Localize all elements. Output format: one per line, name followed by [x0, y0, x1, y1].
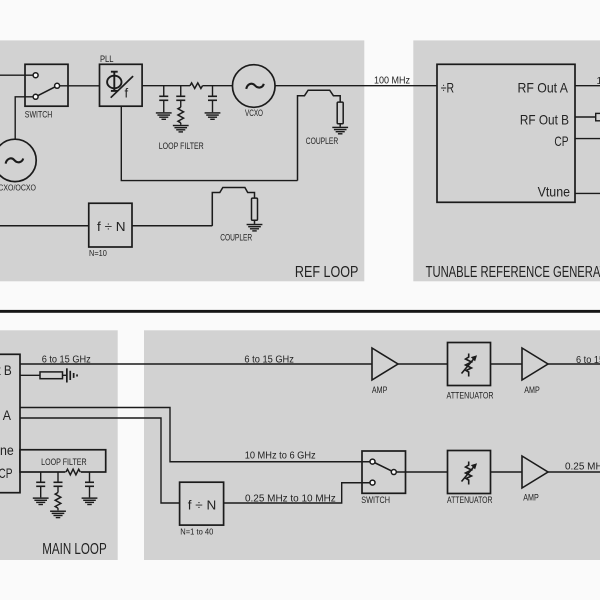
- svg-text:N=1 to 40: N=1 to 40: [180, 527, 213, 537]
- svg-text:AMP: AMP: [372, 385, 388, 395]
- svg-text:REF LOOP: REF LOOP: [295, 264, 359, 281]
- svg-text:÷R: ÷R: [441, 80, 454, 96]
- svg-text:TCXO/OCXO: TCXO/OCXO: [0, 183, 36, 192]
- svg-text:6 to 15 GHz: 6 to 15 GHz: [244, 354, 294, 365]
- svg-text:6 to 15 GHz: 6 to 15 GHz: [576, 355, 600, 366]
- svg-text:SWITCH: SWITCH: [25, 110, 53, 120]
- svg-text:AMP: AMP: [523, 493, 539, 503]
- svg-text:100 MHz: 100 MHz: [374, 75, 410, 86]
- svg-text:COUPLER: COUPLER: [306, 136, 339, 146]
- svg-text:LOOP FILTER: LOOP FILTER: [159, 141, 204, 151]
- svg-text:CP: CP: [0, 465, 13, 481]
- svg-text:RF Out B: RF Out B: [520, 111, 569, 127]
- svg-text:Vtune: Vtune: [538, 184, 571, 200]
- svg-text:1: 1: [597, 76, 600, 87]
- svg-text:LOOP FILTER: LOOP FILTER: [41, 457, 87, 467]
- svg-text:10 MHz to 6 GHz: 10 MHz to 6 GHz: [245, 450, 316, 461]
- svg-text:f ÷ N: f ÷ N: [188, 498, 217, 513]
- svg-text:RF Out A: RF Out A: [0, 407, 12, 423]
- svg-text:MAIN LOOP: MAIN LOOP: [42, 541, 107, 558]
- svg-text:COUPLER: COUPLER: [220, 232, 252, 242]
- svg-text:f ÷ N: f ÷ N: [97, 219, 126, 234]
- svg-text:0.25 MHz to 10 MHz: 0.25 MHz to 10 MHz: [565, 462, 600, 473]
- svg-text:N=10: N=10: [89, 248, 107, 258]
- svg-text:RF Out B: RF Out B: [0, 362, 12, 378]
- svg-text:0.25 MHz to 10 MHz: 0.25 MHz to 10 MHz: [245, 494, 336, 505]
- svg-text:TUNABLE REFERENCE GENERATOR: TUNABLE REFERENCE GENERATOR: [426, 264, 600, 281]
- svg-text:f: f: [125, 85, 129, 100]
- svg-text:6 to 15 GHz: 6 to 15 GHz: [42, 354, 91, 365]
- svg-text:ATTENUATOR: ATTENUATOR: [447, 391, 494, 401]
- svg-text:PLL: PLL: [100, 54, 114, 64]
- svg-text:Vtune: Vtune: [0, 442, 14, 458]
- svg-text:VCXO: VCXO: [245, 108, 263, 118]
- svg-text:CP: CP: [554, 133, 568, 149]
- svg-text:RF Out A: RF Out A: [518, 80, 569, 96]
- svg-text:SWITCH: SWITCH: [361, 495, 390, 505]
- svg-text:ATTENUATOR: ATTENUATOR: [447, 495, 493, 505]
- svg-text:AMP: AMP: [524, 385, 540, 395]
